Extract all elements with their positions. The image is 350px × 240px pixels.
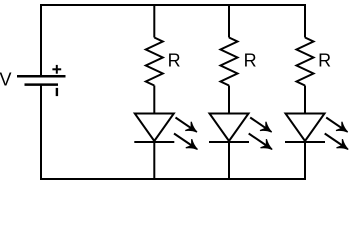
svg-text:R: R bbox=[318, 51, 331, 71]
resistor R1 bbox=[146, 38, 163, 86]
svg-text:R: R bbox=[168, 51, 181, 71]
battery V (voltage source) bbox=[17, 76, 66, 84]
wire: branch 3 resistor to LED bbox=[304, 86, 306, 114]
wire: bottom bus bbox=[40, 178, 306, 180]
wire: top bus bbox=[40, 4, 306, 6]
svg-text:R: R bbox=[244, 51, 257, 71]
LED D3 light arrow 2 bbox=[325, 134, 349, 150]
wire: left rail, top bus to battery + plate bbox=[40, 4, 42, 76]
LED D1 bbox=[134, 114, 174, 143]
LED D3 light arrow 1 bbox=[326, 118, 348, 133]
wire: branch 3 LED to bottom bus bbox=[304, 142, 306, 180]
wire: branch 1 resistor to LED bbox=[153, 86, 155, 114]
wire: branch 2 LED to bottom bus bbox=[228, 142, 230, 180]
LED D1 light arrow 1 bbox=[176, 118, 198, 133]
LED D2 light arrow 2 bbox=[249, 134, 273, 150]
resistor R2 bbox=[221, 38, 238, 86]
LED D2 light arrow 1 bbox=[250, 118, 272, 133]
wire: branch 2 resistor to LED bbox=[228, 86, 230, 114]
wire: branch 1 LED to bottom bus bbox=[153, 142, 155, 180]
wire: branch 3 top lead bbox=[304, 4, 306, 38]
LED D1 light arrow 2 bbox=[174, 134, 198, 150]
wire: branch 2 top lead bbox=[228, 4, 230, 38]
svg-text:V: V bbox=[0, 70, 12, 90]
LED D2 bbox=[209, 114, 249, 143]
LED D3 bbox=[285, 114, 325, 143]
wire: branch 1 top lead bbox=[153, 4, 155, 38]
label + (battery positive terminal) bbox=[52, 65, 61, 74]
label - (battery negative terminal) bbox=[56, 88, 58, 96]
resistor R3 bbox=[297, 38, 314, 86]
wire: left rail, battery - plate to bottom bus bbox=[40, 85, 42, 180]
